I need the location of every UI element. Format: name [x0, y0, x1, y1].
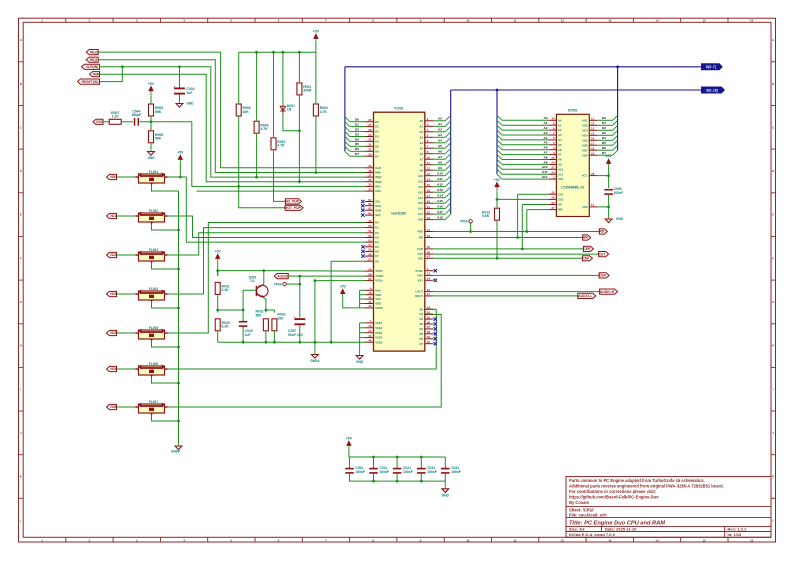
wire R007 to C044 — [122, 121, 133, 123]
wire FL006 tap to GNDP bus — [152, 376, 179, 383]
pin A6 IC008 — [548, 146, 562, 152]
svg-text:13: 13 — [608, 19, 612, 23]
junction K7 rail — [330, 341, 333, 344]
wire A11 from IC001 — [433, 180, 445, 182]
junction +5V rail — [216, 269, 219, 272]
wire A18 from IC001 — [433, 219, 445, 221]
svg-text:A0: A0 — [420, 119, 424, 123]
pin AUDO IC001 — [365, 272, 384, 278]
wire A16 from IC001 — [433, 208, 445, 210]
wire D0 to IC001 — [350, 121, 365, 123]
junction GNDP bus tap 7 — [177, 420, 180, 423]
bus entry A16 — [445, 203, 451, 208]
svg-text:A1: A1 — [544, 121, 548, 125]
wire R008 to ground — [150, 144, 152, 149]
svg-text:I/O8: I/O8 — [582, 153, 588, 157]
svg-text:K6: K6 — [375, 250, 379, 254]
svg-text:I/O7: I/O7 — [582, 148, 588, 152]
capacitor C011 — [369, 466, 389, 474]
wire VD0 to FL001 — [117, 176, 139, 178]
svg-text:43: 43 — [368, 334, 372, 338]
capacitor C044 — [131, 110, 141, 126]
svg-text:10: 10 — [427, 156, 431, 160]
bus entry D3 IC008 — [613, 130, 618, 135]
svg-text:D1: D1 — [375, 125, 379, 129]
wire to Q001 base — [243, 290, 256, 310]
wire to C040 — [242, 310, 244, 321]
svg-text:FL006: FL006 — [149, 362, 158, 366]
junction FL001 +5V — [179, 176, 182, 179]
pin ROUT IC001 — [415, 292, 433, 298]
svg-text:20: 20 — [551, 191, 555, 195]
capacitor C001 — [345, 466, 365, 474]
no-connect SYNC — [434, 269, 437, 272]
svg-text:53: 53 — [368, 238, 372, 242]
pin K4 IC001 — [365, 238, 379, 244]
svg-text:A18: A18 — [418, 218, 424, 222]
wire VD6 to FL007 — [117, 406, 139, 408]
svg-text:16: 16 — [750, 538, 754, 542]
svg-text:K5: K5 — [375, 245, 379, 249]
svg-text:51: 51 — [368, 229, 372, 233]
svg-text:44: 44 — [368, 304, 372, 308]
svg-text:38: 38 — [427, 330, 431, 334]
svg-text:41: 41 — [427, 228, 431, 232]
wire D001 to R001 net — [283, 114, 300, 131]
junction R005/OSC row — [237, 185, 240, 188]
pin SXD IC001 (NC) — [365, 207, 381, 213]
bus entry A1 IC008 — [497, 120, 502, 125]
wire C040 to gnd rail — [242, 327, 244, 342]
svg-text:48: 48 — [368, 339, 372, 343]
svg-text:56K: 56K — [155, 110, 162, 114]
junction collector — [262, 269, 265, 272]
wire FL002 tap to GNDP bus — [152, 223, 179, 230]
wire VRD to RD label — [433, 231, 599, 233]
wire I/O6 from IC008 — [597, 144, 612, 146]
pin D4 bottom IC001 (NC) — [420, 325, 434, 331]
svg-text:Additional parts reverse engin: Additional parts reverse engineered from… — [569, 484, 724, 489]
wire rail to R010 — [273, 52, 275, 137]
pin A4 IC001 — [420, 139, 434, 145]
pin A1 IC001 — [420, 123, 434, 129]
wire A6 to IC008 — [502, 149, 548, 151]
junction GNDP bus tap 2 — [177, 229, 180, 232]
wire A8 to IC008 — [502, 159, 548, 161]
pin VSS4 IC001 — [365, 334, 383, 340]
wire VD5 to FL006 — [117, 368, 139, 370]
svg-text:I/O6: I/O6 — [582, 143, 588, 147]
svg-text:I/O4: I/O4 — [582, 133, 588, 137]
svg-text:K8: K8 — [375, 259, 379, 263]
svg-text:27: 27 — [368, 123, 372, 127]
bus entry A8 — [445, 159, 451, 164]
wire rail to C011 — [373, 457, 375, 468]
wire A4 to IC008 — [502, 139, 548, 141]
pin I/O8 IC008 — [582, 152, 597, 158]
svg-text:27: 27 — [551, 206, 555, 210]
no-connect SXD — [361, 209, 364, 212]
pin A11 IC008 — [548, 171, 563, 177]
resistor R021 — [215, 282, 230, 294]
wire CS2 from IC008 — [497, 198, 548, 200]
svg-text:A3: A3 — [558, 133, 562, 137]
bus entry A7 — [445, 154, 451, 159]
wire GNDP bus — [178, 191, 180, 443]
svg-text:31: 31 — [368, 143, 372, 147]
wire LOUT to AUDIO-R label — [433, 291, 599, 293]
wire VCC to +5V — [597, 175, 608, 177]
svg-text:25: 25 — [551, 156, 555, 160]
wire OE from IC008 — [522, 204, 548, 206]
svg-text:IC001: IC001 — [394, 106, 403, 110]
bus entry D6 — [345, 146, 350, 151]
pin A0 IC008 — [548, 117, 562, 123]
svg-text:41: 41 — [368, 300, 372, 304]
svg-text:A5: A5 — [558, 143, 562, 147]
svg-text:A3: A3 — [544, 131, 548, 135]
wire D2 to IC001 — [350, 131, 365, 133]
node WR label — [582, 235, 590, 240]
svg-text:E: E — [772, 213, 774, 217]
svg-text:1.2K: 1.2K — [112, 115, 120, 119]
wire OSC to R007 — [103, 121, 109, 123]
node VD3 input label — [107, 291, 117, 296]
wire D3 to IC001 — [350, 136, 365, 138]
wire CLT to CE7 label — [433, 253, 598, 255]
wire +5V comb pin 5 — [360, 307, 365, 309]
svg-text:D4: D4 — [602, 136, 606, 140]
pin A5 IC008 — [548, 141, 562, 147]
svg-text:A4: A4 — [544, 136, 548, 140]
svg-text:D0: D0 — [420, 307, 424, 311]
ground IC008 — [605, 216, 624, 223]
no-connect SXO — [361, 204, 364, 207]
node VD0 input label — [107, 174, 117, 179]
svg-text:A6: A6 — [420, 152, 424, 156]
svg-text:CE7: CE7 — [599, 252, 606, 256]
svg-text:59: 59 — [368, 267, 372, 271]
svg-text:D2: D2 — [355, 128, 359, 132]
pin VSS3 IC001 — [365, 329, 383, 335]
junction base/C040 — [242, 309, 245, 312]
wire A0 to IC008 — [502, 119, 548, 121]
pin CS2 IC008 — [548, 196, 563, 202]
svg-text:IRQ1: IRQ1 — [90, 58, 98, 62]
bus A[0..18] horizontal — [451, 89, 702, 91]
svg-text:A11: A11 — [437, 177, 443, 181]
svg-text:FL005: FL005 — [149, 326, 158, 330]
junction VSSA — [314, 279, 317, 282]
pin D6 bottom IC001 (NC) — [420, 335, 434, 341]
pin K7 IC001 (NC) — [365, 252, 379, 258]
svg-text:56: 56 — [368, 252, 372, 256]
pin CS1 IC008 — [548, 191, 563, 197]
svg-text:26: 26 — [551, 196, 555, 200]
pin A8 IC008 — [548, 156, 562, 162]
wire rail to C021 — [396, 457, 398, 468]
wire FL007 to D1 riser — [168, 315, 442, 408]
junction TP04 — [298, 283, 301, 286]
wire CUR to CER label — [433, 248, 583, 250]
bus A vertical IC001 — [450, 90, 452, 214]
svg-text:64: 64 — [368, 211, 372, 215]
pin A12 IC001 — [418, 183, 433, 189]
ground GNDA — [310, 352, 320, 364]
wire VD1 to FL002 — [117, 215, 139, 217]
svg-text:EDI: EDI — [418, 256, 423, 260]
wire D5 to IC001 — [350, 145, 365, 147]
svg-text:GND: GND — [356, 360, 364, 364]
wire FL001 to K4 — [168, 177, 366, 242]
no-connect D5 bottom — [434, 332, 437, 335]
wire emitter node — [266, 309, 275, 311]
resistor R032 — [272, 313, 286, 331]
svg-text:A17: A17 — [418, 212, 424, 216]
svg-text:24: 24 — [427, 306, 431, 310]
svg-text:10: 10 — [466, 538, 470, 542]
bus entry D0 IC008 — [613, 115, 618, 120]
bus junction D — [616, 65, 619, 68]
svg-text:A7: A7 — [420, 157, 424, 161]
+5V power above R009 — [148, 82, 155, 96]
wire rail to R004 — [315, 52, 317, 103]
no-connect D2 bottom — [434, 317, 437, 320]
no-connect D4 bottom — [434, 327, 437, 330]
+5V power R013 — [494, 178, 501, 192]
svg-text:+5V: +5V — [346, 437, 353, 441]
bus entry A17 — [445, 209, 451, 214]
wire IRQ2 net — [98, 52, 365, 168]
wire rail to C031 — [420, 457, 422, 468]
svg-text:CS2: CS2 — [558, 198, 564, 202]
svg-text:23: 23 — [551, 171, 555, 175]
svg-text:FL003: FL003 — [149, 248, 158, 252]
no-connect SXT — [361, 213, 364, 216]
svg-text:VPPA: VPPA — [375, 269, 382, 273]
svg-text:55: 55 — [368, 248, 372, 252]
bus entry A11 — [445, 176, 451, 181]
ground cap bank — [442, 486, 450, 498]
resistor R001 — [297, 83, 312, 95]
wire I/O7 from IC008 — [597, 149, 612, 151]
svg-text:23: 23 — [427, 216, 431, 220]
wire R032 to gnd rail — [273, 332, 275, 343]
svg-text:D5: D5 — [355, 142, 359, 146]
svg-text:22: 22 — [551, 201, 555, 205]
IC IC008 LC3564BML-10 RAM — [556, 108, 589, 216]
wire C057 to gnd rail — [299, 325, 301, 343]
node AUDIO label — [274, 274, 288, 279]
svg-text:AUDIO-R: AUDIO-R — [600, 290, 615, 294]
svg-text:A10: A10 — [542, 165, 548, 169]
pin K0 IC001 — [365, 219, 379, 225]
wire A4 from IC001 — [433, 142, 445, 144]
svg-text:A0: A0 — [438, 117, 442, 121]
resistor R008 — [149, 131, 164, 143]
resistor R013 — [482, 208, 500, 220]
svg-text:30: 30 — [368, 138, 372, 142]
node OSC input label — [93, 119, 104, 124]
svg-text:D1: D1 — [602, 121, 606, 125]
bus entry D5 IC008 — [613, 140, 618, 145]
svg-text:18: 18 — [368, 291, 372, 295]
pin IRQ2 IC001 — [365, 178, 382, 184]
svg-text:100nF: 100nF — [355, 470, 365, 474]
bus entry A0 IC008 — [497, 115, 502, 120]
wire +5V comb pin 3 — [360, 298, 365, 300]
wire FL007 tap to GNDP bus — [152, 414, 179, 421]
svg-text:VD4: VD4 — [110, 331, 117, 335]
svg-text:50: 50 — [368, 224, 372, 228]
svg-text:11: 11 — [514, 19, 517, 23]
+5V power audio — [215, 250, 222, 264]
svg-text:A4: A4 — [558, 138, 562, 142]
svg-text:A16: A16 — [437, 205, 443, 209]
svg-text:100nF: 100nF — [379, 470, 389, 474]
svg-text:L: L — [20, 518, 22, 522]
svg-text:A10: A10 — [558, 167, 564, 171]
svg-text:D4: D4 — [420, 327, 424, 331]
svg-text:HuC6280: HuC6280 — [391, 211, 406, 215]
bus entry A8 IC008 — [497, 155, 502, 160]
svg-text:K7: K7 — [375, 254, 379, 258]
filter FL003 — [136, 248, 168, 264]
bus entry A18 — [445, 214, 451, 219]
svg-text:B: B — [772, 82, 774, 86]
wire A2 from IC001 — [433, 131, 445, 133]
svg-text:10: 10 — [466, 19, 470, 23]
wire WE from IC008 — [527, 209, 549, 211]
node VD4 input label — [107, 330, 117, 335]
capacitor C005 — [604, 187, 623, 195]
diode D001 — [280, 104, 295, 114]
svg-text:60: 60 — [368, 277, 372, 281]
svg-text:VCC: VCC — [582, 174, 588, 178]
svg-text:8.2K: 8.2K — [222, 325, 230, 329]
svg-text:NMI: NMI — [93, 72, 99, 76]
svg-text:57: 57 — [368, 258, 372, 262]
svg-text:A0: A0 — [558, 118, 562, 122]
resistor R030 — [215, 319, 230, 331]
svg-text:CS1: CS1 — [558, 192, 564, 196]
svg-text:A15: A15 — [437, 199, 443, 203]
svg-text:4.7K: 4.7K — [320, 110, 328, 114]
filter FL004 — [136, 287, 168, 303]
wire A14 from IC001 — [433, 197, 445, 199]
bus entry D6 IC008 — [613, 145, 618, 150]
bus entry A12 — [445, 181, 451, 186]
bus entry D4 IC008 — [613, 135, 618, 140]
wire A9 to IC008 — [502, 163, 548, 165]
pin VCC IC008 — [582, 172, 598, 178]
bus entry A6 IC008 — [497, 145, 502, 150]
wire NMI net — [100, 74, 366, 182]
wire D6 to IC001 — [350, 150, 365, 152]
svg-text:F: F — [772, 256, 774, 260]
wire I/O1 from IC008 — [597, 119, 612, 121]
svg-text:A4: A4 — [420, 141, 424, 145]
svg-text:SYNC: SYNC — [415, 269, 423, 273]
svg-text:By Cosam: By Cosam — [569, 500, 589, 505]
pin K6 IC001 (NC) — [365, 248, 379, 254]
svg-text:63: 63 — [368, 207, 372, 211]
wire FL005 to K0 — [168, 223, 366, 334]
svg-text:NMI: NMI — [375, 171, 380, 175]
svg-text:12: 12 — [427, 167, 431, 171]
svg-text:A12: A12 — [558, 177, 564, 181]
wire C001 to rail — [349, 473, 351, 481]
no-connect D6 bottom — [434, 337, 437, 340]
svg-text:Parts common to PC Engine adap: Parts common to PC Engine adapted from T… — [569, 478, 705, 483]
svg-text:A3: A3 — [420, 135, 424, 139]
node CE7 label — [599, 252, 609, 257]
wire K7 pin — [331, 260, 365, 262]
pin HSY IC001 — [417, 272, 433, 278]
ground below R008 — [147, 149, 155, 161]
+5V power FL001 — [177, 151, 184, 165]
node RD label — [599, 229, 607, 234]
svg-text:39: 39 — [368, 164, 372, 168]
pin K1 IC001 — [365, 224, 379, 230]
svg-text:Rev: 1.3.1: Rev: 1.3.1 — [728, 527, 747, 532]
pin A3 IC008 — [548, 131, 562, 137]
wire VSS comb pin 2 — [360, 327, 365, 329]
svg-text:VSS3: VSS3 — [375, 331, 383, 335]
wire to GNDA — [314, 342, 316, 351]
no-connect K6 — [361, 250, 364, 253]
svg-text:37: 37 — [368, 173, 372, 177]
svg-text:VDO: VDO — [375, 302, 382, 306]
node AUDIO-L label — [578, 293, 596, 298]
wire C041 to rail — [444, 473, 446, 481]
svg-text:13: 13 — [591, 127, 595, 131]
pin LOUT IC001 — [415, 288, 433, 294]
svg-text:A8: A8 — [544, 155, 548, 159]
svg-text:CER: CER — [583, 247, 591, 251]
svg-text:+5V: +5V — [606, 155, 613, 159]
svg-text:58: 58 — [368, 272, 372, 276]
svg-text:CEP: CEP — [582, 257, 590, 261]
svg-text:14: 14 — [427, 277, 431, 281]
svg-text:AUDO: AUDO — [375, 274, 384, 278]
pin D2 bottom IC001 (NC) — [420, 315, 434, 321]
svg-text:AUDIO: AUDIO — [277, 274, 288, 278]
svg-text:15: 15 — [427, 183, 431, 187]
svg-text:GNDA: GNDA — [310, 359, 320, 363]
capacitor C040 — [239, 322, 253, 337]
svg-text:SXD: SXD — [375, 208, 381, 212]
wire ROUT to AUDIO-L label — [433, 295, 578, 297]
svg-text:A15: A15 — [418, 201, 424, 205]
junction emitter — [265, 309, 268, 312]
svg-text:OE: OE — [558, 203, 562, 207]
pin D5 IC001 — [365, 143, 379, 149]
wire rail to R001 — [298, 52, 300, 82]
svg-text:10K: 10K — [243, 110, 250, 114]
resistor R007 — [109, 111, 121, 124]
bus A vertical to IC008 — [496, 90, 498, 174]
svg-text:IRQ2: IRQ2 — [375, 180, 382, 184]
bus junction A — [496, 89, 499, 92]
+5V power cap bank — [346, 437, 353, 451]
svg-text:A5: A5 — [420, 146, 424, 150]
pin A4 IC008 — [548, 136, 562, 142]
svg-text:I/O5: I/O5 — [582, 138, 588, 142]
svg-text:OSC: OSC — [375, 189, 381, 193]
pin A9 IC008 — [548, 161, 562, 167]
title block size/date/rev text — [569, 527, 747, 538]
